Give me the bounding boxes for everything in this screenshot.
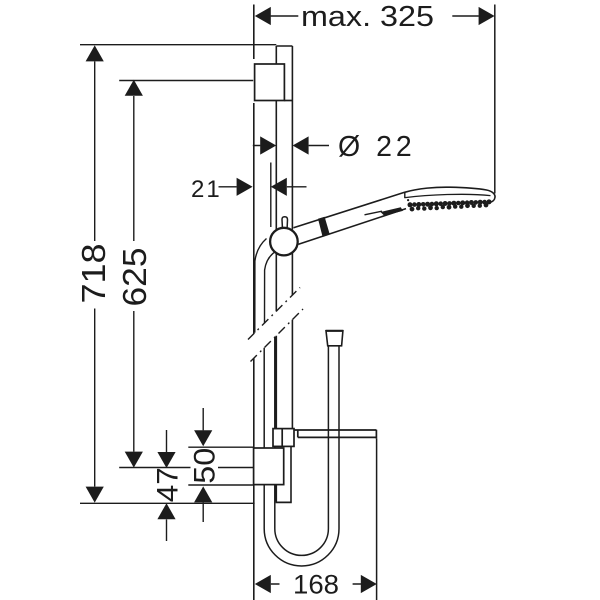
dark wedge near head joint (365, 211, 383, 215)
625 top extension line (119, 80, 253, 82)
right extension line (shower head tip) (494, 5, 496, 194)
grip band (318, 217, 330, 237)
50 top extension line (188, 446, 253, 448)
hose top connector (326, 331, 343, 346)
dimension 625 vertical (125, 80, 143, 468)
svg-text:625: 625 (116, 248, 153, 307)
rail top cap (276, 45, 292, 47)
wall extension vertical line x=253.8 (253, 5, 255, 600)
718 bottom extension line (80, 502, 255, 504)
shower head (405, 187, 495, 211)
holder knob (270, 228, 298, 256)
spray nozzle band (408, 202, 413, 207)
dimension dia22 (253, 136, 329, 154)
718 top extension line (80, 44, 276, 46)
50/47 bracket bottom extension line (188, 484, 253, 486)
svg-text:718: 718 (75, 244, 112, 304)
slider holder (273, 429, 294, 447)
svg-text:47: 47 (152, 467, 185, 502)
21 tangent extension line (270, 163, 272, 228)
rail left edge (275, 46, 277, 429)
dimension 21 (219, 178, 307, 196)
bottom wall bracket (254, 448, 284, 485)
upper hose from handle (255, 239, 275, 333)
168 right extension line (376, 439, 378, 600)
dimension 47 (157, 430, 175, 541)
rail tube (276, 46, 292, 429)
625 bottom extension line (119, 467, 253, 469)
rail lower end (276, 447, 292, 502)
rail right edge (291, 46, 293, 429)
holder clamp tab (282, 217, 288, 231)
dimension 718 vertical (86, 45, 104, 502)
svg-text:168: 168 (293, 570, 339, 600)
hand shower handle (294, 192, 410, 244)
shelf bar (294, 430, 376, 439)
top wall bracket (255, 64, 293, 101)
svg-text:50: 50 (189, 448, 222, 484)
lower hose: left drop, U-turn, right riser (264, 337, 339, 566)
svg-text:21: 21 (191, 176, 222, 203)
break diagonals (248, 288, 303, 362)
dimension max.325 top (255, 7, 495, 25)
dimension 50 (194, 408, 212, 522)
dimension 168 bottom (255, 575, 377, 593)
svg-text:Ø 22: Ø 22 (338, 131, 416, 163)
svg-text:max. 325: max. 325 (301, 1, 434, 33)
